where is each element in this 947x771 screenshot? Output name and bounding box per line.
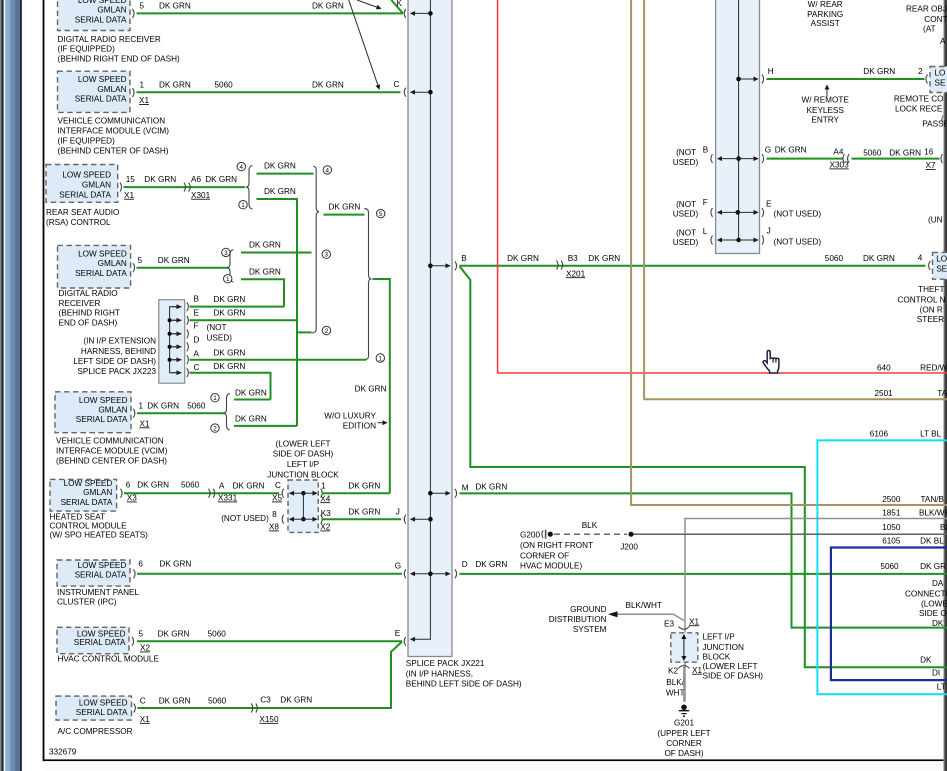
circled 1 left DR — [224, 275, 232, 284]
circled 4 right — [323, 166, 331, 175]
wire 6105 DK BLU navy box — [831, 537, 947, 681]
connector X331 — [209, 489, 215, 498]
svg-text:GMLAN: GMLAN — [98, 406, 127, 415]
svg-text:PARKING: PARKING — [807, 10, 843, 19]
wire G to X303 — [765, 145, 849, 169]
svg-text:5: 5 — [139, 629, 144, 638]
connector X5 — [282, 489, 284, 498]
svg-text:1: 1 — [241, 202, 245, 209]
svg-text:1: 1 — [226, 276, 230, 283]
wire H to remote door lock receiver — [767, 67, 925, 79]
svg-text:(NOT USED): (NOT USED) — [774, 238, 822, 247]
svg-text:(NOT: (NOT — [676, 200, 696, 209]
svg-text:USED): USED) — [673, 238, 699, 247]
wire 1050 BLK — [634, 523, 947, 534]
svg-text:BLK/: BLK/ — [666, 678, 684, 687]
circled 1 left RSA — [239, 201, 247, 210]
right bar row H arrow — [736, 77, 758, 82]
theft module dashed box — [933, 252, 947, 279]
svg-text:RED/WH: RED/WH — [920, 363, 947, 372]
svg-text:DK GRN: DK GRN — [264, 187, 296, 196]
wire X303 to X7 — [852, 147, 940, 170]
circled 5 — [377, 209, 385, 218]
svg-text:X1: X1 — [140, 715, 150, 724]
svg-text:B: B — [703, 146, 709, 155]
svg-text:4: 4 — [918, 253, 923, 262]
svg-text:DK: DK — [920, 656, 932, 665]
svg-text:DK GRN: DK GRN — [214, 295, 246, 304]
labels not used B — [673, 146, 709, 167]
svg-text:CORNER OF: CORNER OF — [520, 551, 569, 560]
connector E at bar — [404, 637, 406, 646]
svg-text:REMOTE CO: REMOTE CO — [894, 95, 944, 104]
svg-text:E: E — [766, 199, 772, 208]
svg-text:SIDE OF DASH): SIDE OF DASH) — [703, 671, 764, 680]
svg-text:DK GRN: DK GRN — [235, 388, 267, 397]
svg-text:(NOT: (NOT — [207, 323, 227, 332]
connector X4 — [321, 489, 323, 498]
wire JX223 pin E — [190, 309, 297, 321]
svg-text:JUNCTION: JUNCTION — [703, 643, 744, 652]
caption: digital radio receiver 2 — [59, 289, 120, 328]
gather brace 2 — [364, 208, 371, 360]
svg-text:JUNCTION BLOCK: JUNCTION BLOCK — [267, 471, 339, 480]
svg-text:(W/ SPO HEATED SEATS): (W/ SPO HEATED SEATS) — [50, 531, 149, 540]
svg-text:2: 2 — [918, 67, 923, 76]
svg-text:BLK: BLK — [582, 521, 598, 530]
svg-text:A: A — [194, 349, 200, 358]
svg-text:(IF EQUIPPED): (IF EQUIPPED) — [58, 137, 116, 146]
svg-text:VEHICLE COMMUNICATION: VEHICLE COMMUNICATION — [58, 116, 166, 125]
svg-text:D: D — [194, 336, 200, 345]
splice pack JX221 center line with E-row bend — [411, 0, 431, 639]
svg-text:X2: X2 — [320, 523, 330, 532]
svg-text:DK GRN: DK GRN — [137, 481, 169, 490]
svg-text:USED): USED) — [673, 210, 699, 219]
svg-text:DK GRN: DK GRN — [475, 483, 507, 492]
svg-text:5060: 5060 — [825, 254, 844, 263]
svg-text:E: E — [194, 309, 200, 318]
svg-text:EDITION: EDITION — [343, 422, 376, 431]
svg-text:X1: X1 — [139, 96, 149, 105]
svg-text:LOW SPEED: LOW SPEED — [62, 170, 111, 179]
connector M at bar — [455, 489, 457, 498]
svg-text:HEATED SEAT: HEATED SEAT — [50, 512, 106, 521]
svg-text:DK GRN: DK GRN — [348, 507, 380, 516]
svg-text:USED): USED) — [207, 334, 233, 343]
svg-text:DK: DK — [932, 619, 944, 628]
svg-text:5: 5 — [140, 2, 145, 11]
svg-text:DK GRN: DK GRN — [233, 482, 265, 491]
svg-text:SERIAL DATA: SERIAL DATA — [76, 415, 128, 424]
svg-text:(NOT: (NOT — [676, 228, 696, 237]
svg-text:X303: X303 — [830, 161, 850, 170]
svg-text:6105: 6105 — [882, 537, 901, 546]
svg-text:KEYLESS: KEYLESS — [807, 106, 845, 115]
connector theft module — [929, 261, 931, 270]
right junction bar center line — [738, 0, 740, 240]
svg-text:USED): USED) — [673, 158, 699, 167]
svg-text:LOW SPEED: LOW SPEED — [78, 249, 127, 258]
svg-text:STEER: STEER — [917, 315, 944, 324]
svg-text:(LOWE: (LOWE — [921, 599, 947, 608]
svg-text:(ON R: (ON R — [920, 306, 943, 315]
svg-text:2501: 2501 — [875, 389, 894, 398]
left I/P junction block X5/X4 — [288, 480, 318, 532]
svg-text:B3: B3 — [568, 254, 578, 263]
svg-text:2500: 2500 — [882, 495, 901, 504]
svg-text:DIGITAL RADIO: DIGITAL RADIO — [59, 289, 118, 298]
component box: HVAC control module — [57, 627, 134, 653]
svg-text:(BEHIND RIGHT: (BEHIND RIGHT — [59, 309, 120, 318]
svg-text:K: K — [397, 0, 403, 8]
wire RSA branch 1 to JX223 pin E vertical — [257, 187, 298, 426]
svg-text:F: F — [703, 198, 708, 207]
svg-text:X201: X201 — [566, 269, 586, 278]
connector above E3 block — [678, 627, 689, 630]
circled 1 VCIM2 — [211, 394, 219, 403]
svg-text:SERIAL DATA: SERIAL DATA — [59, 191, 111, 200]
svg-text:DK GRN: DK GRN — [264, 162, 296, 171]
svg-text:DA: DA — [932, 579, 944, 588]
wire to ground G201 — [683, 665, 685, 702]
svg-text:A: A — [940, 37, 946, 46]
svg-text:CONT: CONT — [924, 15, 947, 24]
svg-text:C: C — [140, 696, 146, 705]
svg-text:X2: X2 — [140, 644, 150, 653]
svg-text:(NOT USED): (NOT USED) — [774, 210, 822, 219]
svg-text:DK BL: DK BL — [920, 537, 944, 546]
svg-text:6: 6 — [126, 481, 131, 490]
caption: heated seat control module — [50, 512, 149, 539]
svg-text:B: B — [461, 254, 467, 263]
svg-text:CONTROL MODULE: CONTROL MODULE — [50, 521, 128, 530]
svg-text:X4: X4 — [320, 494, 330, 503]
svg-text:3: 3 — [224, 250, 228, 257]
svg-text:DK GRN: DK GRN — [280, 696, 312, 705]
svg-text:CLUSTER (IPC): CLUSTER (IPC) — [57, 598, 117, 607]
svg-text:GMLAN: GMLAN — [82, 180, 111, 189]
svg-text:1: 1 — [139, 401, 144, 410]
svg-text:DK GRN: DK GRN — [312, 80, 344, 89]
caption: G201 — [657, 719, 710, 759]
svg-text:ASSIST: ASSIST — [811, 19, 840, 28]
svg-text:LEFT SIDE OF DASH): LEFT SIDE OF DASH) — [73, 357, 156, 366]
wire B3 jog down and around to right edge — [460, 266, 947, 667]
svg-text:X1: X1 — [689, 617, 699, 626]
svg-text:J: J — [767, 227, 771, 236]
svg-text:5060: 5060 — [181, 481, 200, 490]
svg-text:DK GRN: DK GRN — [249, 267, 281, 276]
connector B at bar — [455, 261, 457, 270]
caption: VCIM 2 — [56, 436, 168, 465]
svg-text:5: 5 — [138, 256, 143, 265]
wire DR branch 1 down to JX223 pin B — [241, 267, 284, 306]
wire HVAC pin 5 to bar E — [137, 629, 402, 708]
svg-text:LOW SPEED: LOW SPEED — [78, 561, 127, 570]
svg-text:WHT: WHT — [666, 689, 685, 698]
wire JX223 pin A — [190, 349, 367, 360]
wire 5 between braces — [324, 203, 365, 215]
svg-text:5060: 5060 — [187, 401, 206, 410]
wire X4 pin1 to luxury wire — [320, 482, 390, 504]
connector below block — [678, 666, 689, 669]
wire JX223 pin C — [190, 362, 271, 400]
svg-text:TAN/B: TAN/B — [921, 495, 945, 504]
svg-text:(LOWER LEFT: (LOWER LEFT — [275, 440, 330, 449]
svg-text:HVAC CONTROL MODULE: HVAC CONTROL MODULE — [58, 655, 160, 664]
svg-text:A4: A4 — [833, 147, 843, 156]
svg-text:G201: G201 — [674, 719, 694, 728]
wire heated seat pin 6 — [124, 481, 282, 503]
svg-text:1: 1 — [321, 482, 326, 491]
svg-text:C: C — [394, 80, 400, 89]
wire 6106 LT BLU cyan — [817, 430, 947, 695]
svg-text:SPLICE PACK JX223: SPLICE PACK JX223 — [77, 367, 156, 376]
svg-text:(LOWER LEFT: (LOWER LEFT — [703, 662, 758, 671]
svg-text:5060: 5060 — [863, 148, 882, 157]
labels not used L — [673, 227, 708, 247]
wire JX223 pin B — [190, 295, 285, 307]
svg-text:DK GRN: DK GRN — [159, 80, 191, 89]
svg-text:5060: 5060 — [208, 696, 227, 705]
svg-text:DK GRN: DK GRN — [355, 385, 387, 394]
connector J right — [762, 236, 764, 245]
svg-text:(IF EQUIPPED): (IF EQUIPPED) — [58, 45, 116, 54]
svg-text:CONTROL N: CONTROL N — [897, 295, 945, 304]
svg-text:VEHICLE COMMUNICATION: VEHICLE COMMUNICATION — [56, 436, 164, 445]
connector B notused left — [711, 154, 713, 163]
svg-text:INTERFACE MODULE (VCIM): INTERFACE MODULE (VCIM) — [56, 447, 168, 456]
svg-text:X331: X331 — [218, 494, 238, 503]
svg-text:DK GRN: DK GRN — [507, 254, 539, 263]
left panel edge strip — [0, 0, 22, 771]
svg-text:OF DASH): OF DASH) — [664, 749, 703, 758]
wire DR pin 5 — [137, 256, 229, 268]
component box: VCIM 2 — [55, 392, 135, 433]
svg-text:SERIAL DATA: SERIAL DATA — [75, 269, 127, 278]
left I/P junction block E3/K2 — [671, 633, 698, 662]
svg-text:1: 1 — [213, 395, 217, 402]
connector H — [762, 75, 764, 84]
svg-text:(RSA) CONTROL: (RSA) CONTROL — [46, 218, 111, 227]
wire A/C pin C — [138, 651, 392, 724]
svg-text:D: D — [462, 560, 468, 569]
svg-text:G200: G200 — [520, 531, 540, 540]
wire M to right edge — [460, 483, 947, 628]
split brace DR — [227, 250, 234, 282]
svg-text:BLOCK: BLOCK — [703, 652, 731, 661]
svg-text:(BEHIND CENTER OF DASH): (BEHIND CENTER OF DASH) — [58, 147, 169, 156]
circled 2 VCIM2 — [211, 424, 219, 433]
ground symbol G201 — [679, 705, 689, 717]
component box: VCIM (if equipped) — [58, 71, 135, 112]
svg-text:DK GRN: DK GRN — [214, 349, 246, 358]
svg-text:M: M — [462, 483, 469, 492]
connector J at bar — [404, 515, 406, 524]
right bar row L/J arrows — [718, 238, 759, 243]
wire VCIM2 pin 1 — [137, 401, 225, 428]
svg-text:LOCK RECE: LOCK RECE — [895, 105, 943, 114]
svg-text:(UN: (UN — [928, 216, 943, 225]
gather brace 1 — [312, 166, 320, 333]
svg-text:DK GRN: DK GRN — [235, 414, 267, 423]
svg-text:DK GRN: DK GRN — [249, 241, 281, 250]
svg-text:DK GRN: DK GRN — [348, 482, 380, 491]
svg-text:LOW SPEED: LOW SPEED — [79, 396, 128, 405]
arrow M out of bar — [428, 491, 450, 496]
wire DR branch 3 — [241, 241, 312, 253]
JX223 pin labels — [194, 295, 200, 372]
svg-text:X8: X8 — [269, 523, 279, 532]
svg-text:BL: BL — [940, 523, 947, 532]
svg-text:SERIAL DATA: SERIAL DATA — [75, 95, 127, 104]
svg-text:(AT: (AT — [923, 25, 936, 34]
svg-text:SYSTEM: SYSTEM — [573, 625, 607, 634]
svg-text:DIGITAL RADIO RECEIVER: DIGITAL RADIO RECEIVER — [58, 35, 161, 44]
svg-text:A6: A6 — [191, 175, 201, 184]
arrow J into bar — [411, 517, 433, 522]
svg-text:GMLAN: GMLAN — [97, 6, 126, 15]
arrow C into bar — [411, 90, 433, 95]
svg-text:E3: E3 — [664, 619, 674, 628]
svg-text:X5: X5 — [272, 494, 282, 503]
svg-text:K3: K3 — [321, 509, 331, 518]
svg-text:X7: X7 — [926, 161, 936, 170]
ground G200 with splice J200 — [520, 521, 638, 570]
svg-text:END OF DASH): END OF DASH) — [59, 319, 118, 328]
caption: splice pack JX221 — [406, 659, 522, 688]
svg-text:BLK/WH: BLK/WH — [919, 509, 947, 518]
svg-text:X301: X301 — [191, 191, 211, 200]
caption: left I/P junction block — [267, 440, 339, 480]
connector X150 — [251, 704, 257, 713]
svg-text:X3: X3 — [127, 494, 137, 503]
svg-text:GROUND: GROUND — [570, 605, 606, 614]
connector remote receiver — [926, 75, 928, 84]
svg-text:SE: SE — [935, 79, 946, 88]
svg-text:LOW SPEED: LOW SPEED — [79, 698, 128, 707]
right window edge strip — [943, 0, 947, 771]
connector X7 — [941, 154, 943, 163]
svg-text:F: F — [194, 322, 199, 331]
split brace RSA — [246, 166, 253, 210]
svg-text:C3: C3 — [260, 696, 271, 705]
svg-text:E: E — [395, 629, 401, 638]
component box: digital radio receiver 2 — [58, 245, 135, 288]
svg-text:3: 3 — [325, 252, 329, 259]
svg-text:X1: X1 — [140, 419, 150, 428]
svg-text:6: 6 — [138, 559, 143, 568]
svg-text:LT BL: LT BL — [920, 430, 942, 439]
wire stub circled2 — [297, 331, 312, 333]
svg-text:SE: SE — [936, 265, 947, 274]
svg-text:15: 15 — [126, 175, 136, 184]
svg-text:L: L — [703, 227, 708, 236]
right bar row G/B arrows — [718, 156, 759, 161]
svg-text:4: 4 — [240, 164, 244, 171]
annotation arrow 2 — [349, 0, 380, 89]
component box: digital radio receiver (if equipped) — [58, 0, 135, 31]
svg-text:5: 5 — [379, 211, 383, 218]
circled 4 left — [237, 162, 245, 171]
caption: rear seat audio — [46, 208, 119, 227]
wire D to right edge — [460, 560, 947, 574]
svg-text:SPLICE PACK JX221: SPLICE PACK JX221 — [406, 659, 485, 668]
svg-text:RECEIVER: RECEIVER — [59, 299, 101, 308]
svg-text:(NOT: (NOT — [676, 148, 696, 157]
split brace VCIM2 — [223, 394, 230, 430]
arrows G D at bar — [411, 572, 451, 577]
svg-text:DK GR: DK GR — [920, 562, 946, 571]
svg-text:K2: K2 — [668, 667, 678, 676]
svg-text:W/ REAR: W/ REAR — [808, 0, 843, 9]
svg-text:DK GRN: DK GRN — [159, 2, 191, 11]
svg-text:ENTRY: ENTRY — [811, 116, 839, 125]
svg-text:X1: X1 — [124, 191, 134, 200]
svg-text:(NOT USED): (NOT USED) — [221, 514, 269, 523]
connector X201 — [557, 261, 563, 270]
svg-text:HARNESS, BEHIND: HARNESS, BEHIND — [81, 347, 156, 356]
connector X8 — [282, 515, 284, 524]
svg-text:THEFT: THEFT — [918, 285, 944, 294]
circled 3 right — [322, 250, 330, 259]
svg-text:LEFT I/P: LEFT I/P — [287, 460, 320, 469]
caption: theft control module — [897, 285, 945, 324]
svg-text:B: B — [194, 295, 200, 304]
svg-text:DK GRN: DK GRN — [205, 175, 237, 184]
caption: remote control door lock receiver — [894, 95, 947, 129]
wire brace2 output down to junction block — [355, 279, 390, 493]
wire 640 RED/WHT — [498, 0, 947, 373]
svg-text:REAR OBJ: REAR OBJ — [906, 4, 947, 13]
connector L left — [711, 236, 713, 245]
svg-text:INSTRUMENT PANEL: INSTRUMENT PANEL — [57, 588, 139, 597]
JX223 pin connectors — [187, 302, 189, 377]
svg-text:DK GRN: DK GRN — [588, 254, 620, 263]
caption: left I/P junction block right — [703, 632, 764, 680]
svg-text:LO: LO — [935, 69, 946, 78]
svg-text:X150: X150 — [259, 715, 279, 724]
svg-text:BLK/WHT: BLK/WHT — [626, 601, 662, 610]
component box: instrument panel cluster — [57, 560, 135, 586]
svg-text:INTERFACE MODULE (VCIM): INTERFACE MODULE (VCIM) — [58, 126, 170, 135]
wire RSA pin 15 — [124, 175, 246, 200]
svg-text:C: C — [275, 481, 281, 490]
svg-text:(BEHIND CENTER OF DASH): (BEHIND CENTER OF DASH) — [56, 457, 167, 466]
svg-text:DK GRN: DK GRN — [158, 256, 190, 265]
svg-text:REAR SEAT AUDIO: REAR SEAT AUDIO — [46, 208, 119, 217]
connector G at bar — [404, 569, 406, 578]
caption: instrument panel cluster — [57, 588, 139, 607]
svg-text:SIDE O: SIDE O — [919, 609, 947, 618]
svg-text:J200: J200 — [620, 542, 638, 551]
connector C at bar — [404, 88, 406, 97]
svg-text:(IN I/P EXTENSION: (IN I/P EXTENSION — [83, 337, 156, 346]
connector G right — [762, 154, 764, 163]
svg-text:DK GRN: DK GRN — [144, 175, 176, 184]
remote receiver dashed box — [930, 67, 947, 93]
caption: rear object sensor — [906, 4, 947, 46]
svg-text:BEHIND LEFT SIDE OF DASH): BEHIND LEFT SIDE OF DASH) — [406, 679, 522, 688]
svg-text:2: 2 — [325, 328, 329, 335]
svg-text:LEFT I/P: LEFT I/P — [703, 632, 736, 641]
svg-text:TA: TA — [937, 389, 947, 398]
labels on wire D right — [880, 562, 946, 571]
caption: w/ remote keyless entry — [802, 85, 850, 125]
labels E3 X1 — [664, 617, 699, 628]
svg-text:DK GRN: DK GRN — [863, 254, 895, 263]
